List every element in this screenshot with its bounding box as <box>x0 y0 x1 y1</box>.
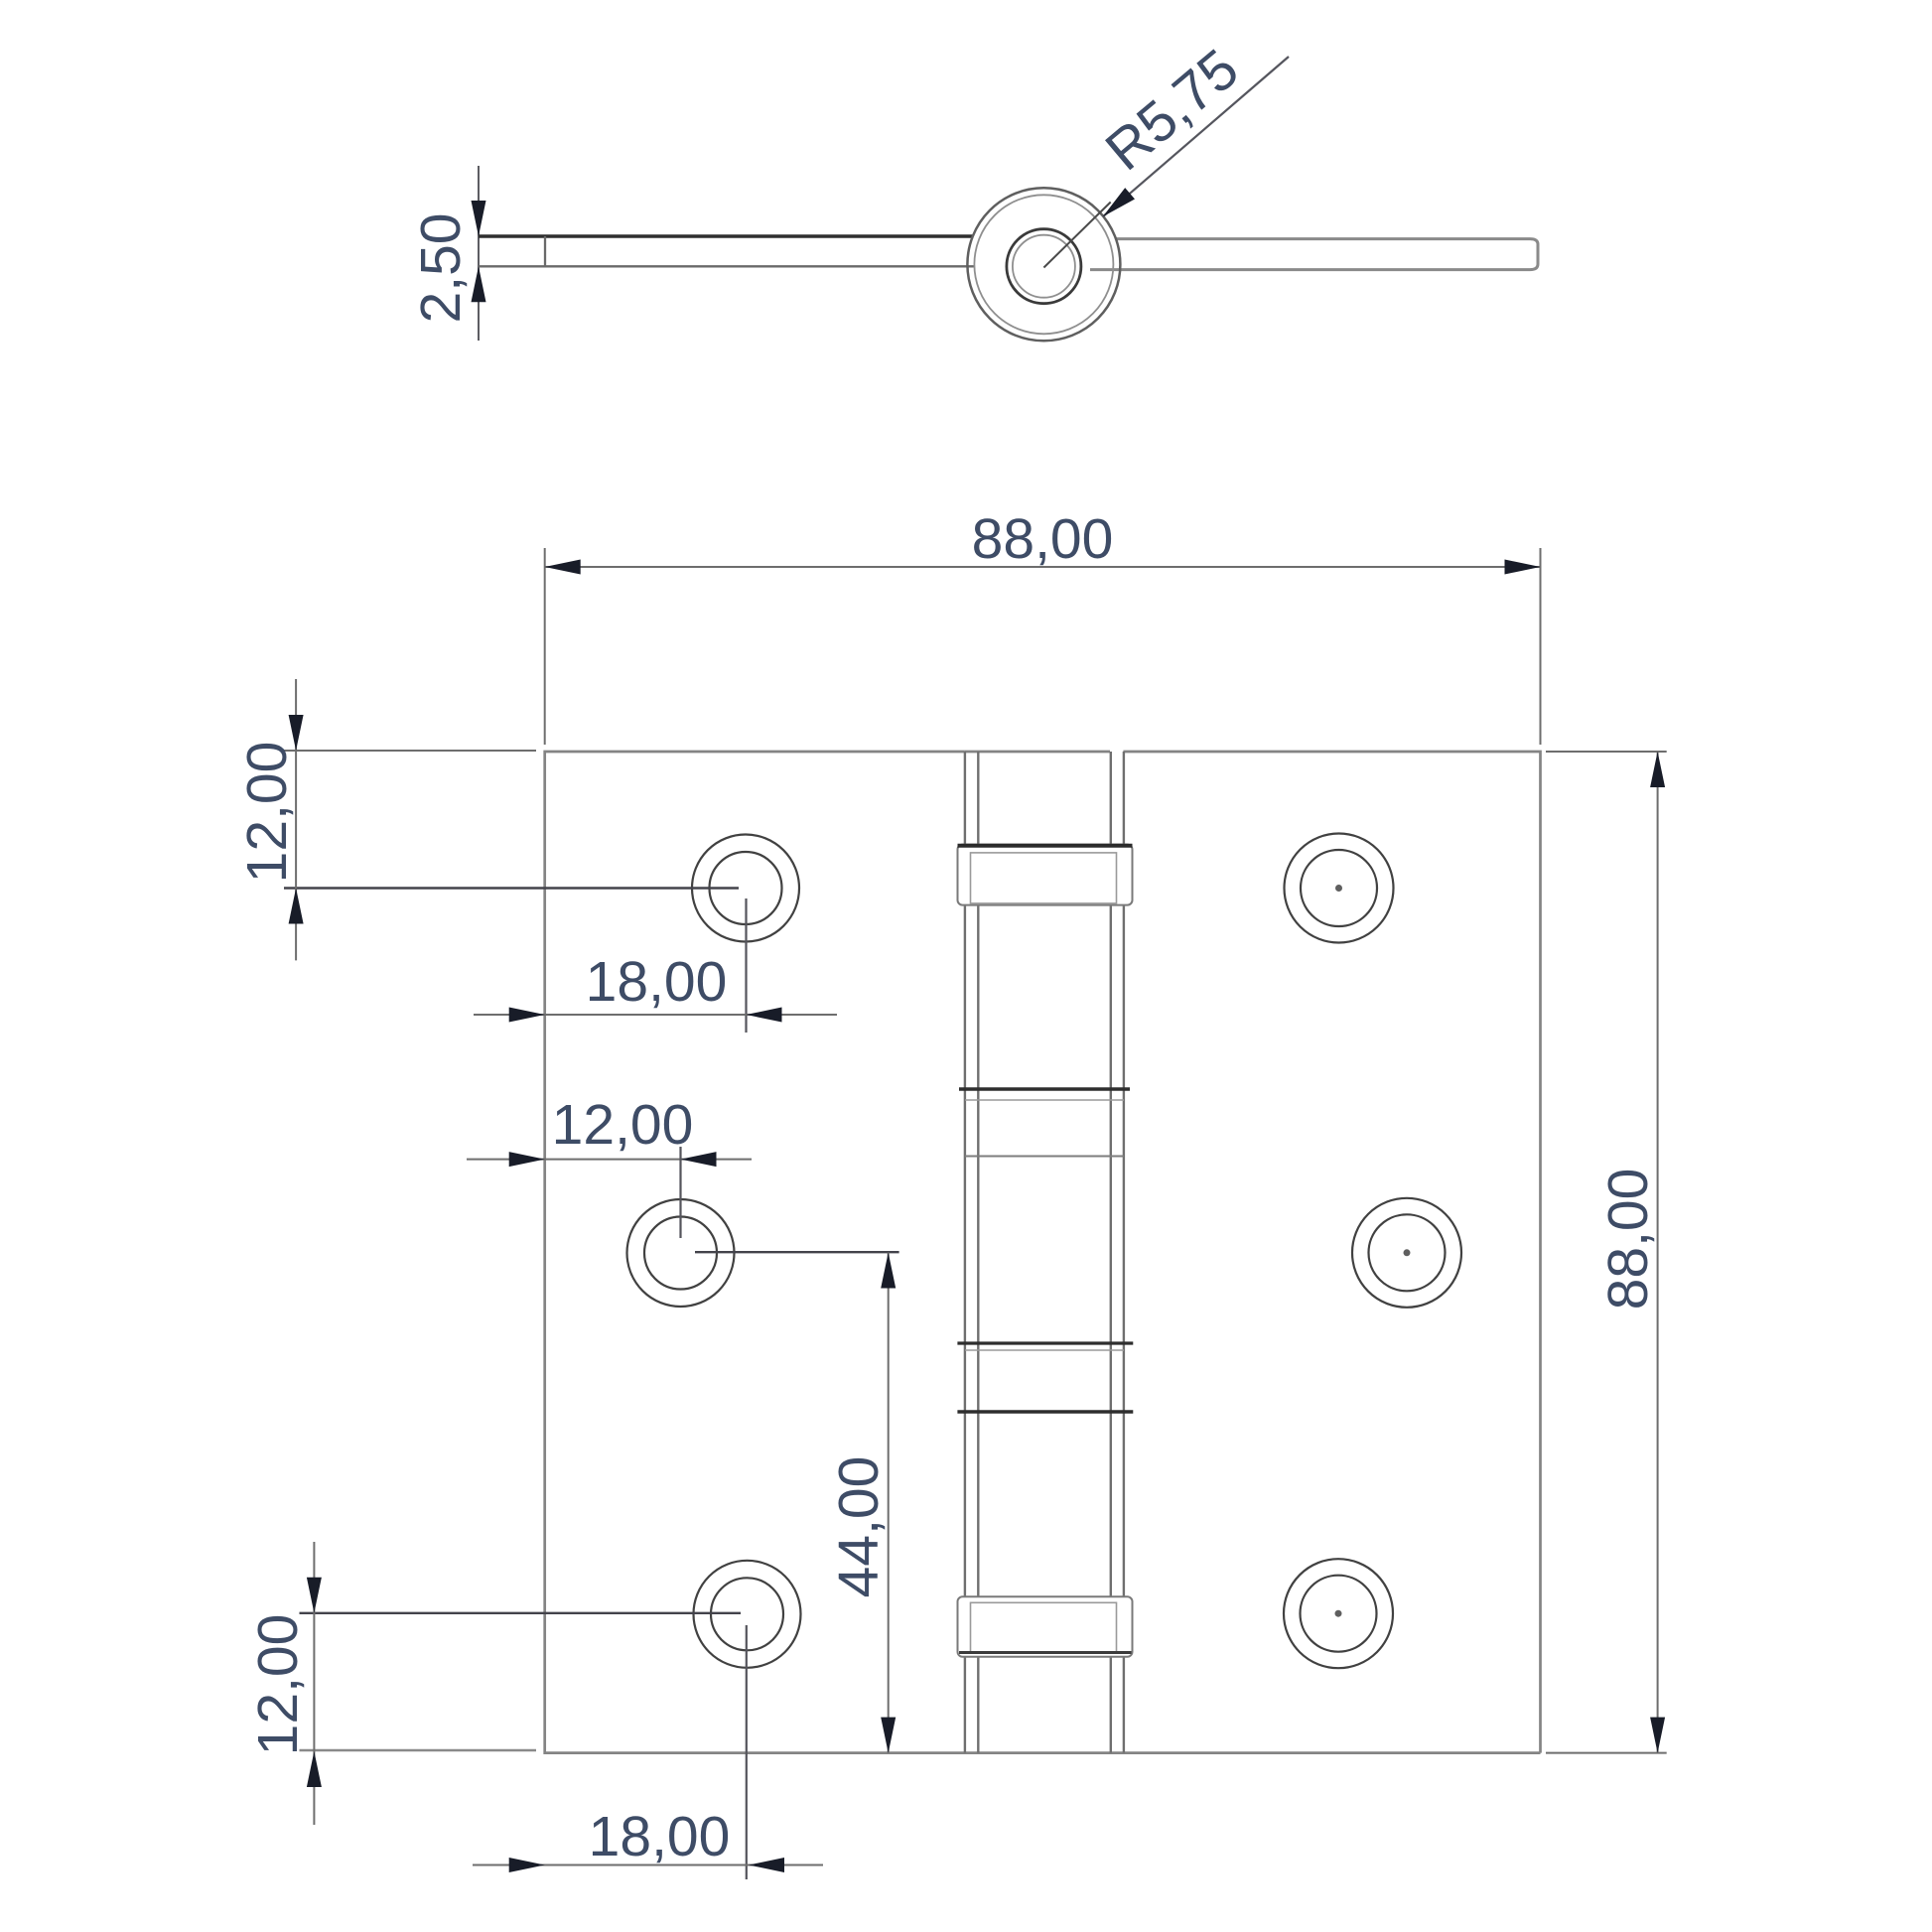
dimension 88,00 top: left arrow <box>545 560 581 575</box>
dimension 44,00: top arrow <box>881 1253 896 1289</box>
bearing collar top (white fill) <box>958 845 1133 905</box>
dimension 12,00 middle: dimension line <box>467 1159 752 1161</box>
dimension text 12,00 bottom-left <box>246 1614 310 1756</box>
dimension 18,00 bottom: right arrow <box>749 1858 784 1872</box>
left leaf top edge (side view) <box>479 234 973 237</box>
svg-text:18,00: 18,00 <box>586 950 728 1014</box>
dimension 88,00 top: extension lines <box>545 548 1541 745</box>
dimension 2,50 bottom arrow <box>472 266 486 302</box>
dimension 12,00 top-left: dimension line <box>295 679 297 960</box>
dimension text 18,00 top <box>586 950 728 1014</box>
left leaf bottom edge (side view) <box>479 265 975 267</box>
dimension text 12,00 top-left <box>235 742 299 884</box>
dimension 12,00 middle: right arrow <box>681 1152 717 1167</box>
dimension 88,00 right: top arrow <box>1650 752 1665 787</box>
barrel divider gray line <box>965 1156 1124 1158</box>
extension line down from hole top-left <box>745 898 747 1033</box>
dimension 18,00 top: dimension line <box>474 1014 837 1016</box>
hole top-right <box>1285 834 1394 943</box>
centerline from hole bottom-left <box>300 1612 742 1614</box>
hole top-left <box>692 835 799 942</box>
dimension text 44,00 <box>827 1456 891 1598</box>
extension line down from hole bottom-left <box>746 1625 748 1879</box>
pin hole inner ring <box>1013 235 1075 298</box>
dimension 12,00 middle: left arrow <box>509 1152 545 1167</box>
pin hole outer circle <box>1007 229 1081 304</box>
dimension 12,00 top-left: bottom arrow <box>289 889 304 924</box>
barrel vertical line far-left <box>964 752 966 1753</box>
dimension text 88,00 right <box>1596 1169 1660 1311</box>
svg-text:12,00: 12,00 <box>552 1093 694 1157</box>
svg-text:12,00: 12,00 <box>235 742 299 884</box>
dimension 18,00 bottom: dimension line <box>473 1864 823 1866</box>
barrel vertical line far-right <box>1123 752 1125 1753</box>
knuckle outer circle (side view) <box>967 188 1120 341</box>
bearing collar bottom (white fill) <box>958 1596 1133 1657</box>
right plate outline <box>1123 752 1540 1753</box>
dimension text R5,75 <box>1094 37 1251 183</box>
hole bottom-right <box>1284 1559 1393 1668</box>
dimension text 2,50 <box>409 213 473 324</box>
dimension 18,00 top: right arrow <box>747 1008 782 1023</box>
hole mid-right <box>1352 1198 1461 1308</box>
barrel divider dark line 2 <box>957 1343 1133 1350</box>
leader arrow R5,75 <box>1103 188 1135 216</box>
dimension 18,00 bottom: left arrow <box>509 1858 545 1872</box>
left leaf end cap (side view) <box>544 236 546 266</box>
hole bottom-left <box>694 1561 801 1668</box>
dimension 12,00 bottom-left: top arrow <box>307 1578 322 1613</box>
dimension 12,00 top-left: top arrow <box>289 715 304 751</box>
dimension 18,00 top: left arrow <box>509 1008 545 1023</box>
centerline right from hole mid-left <box>695 1251 899 1253</box>
extension line up from hole mid-left <box>679 1147 681 1238</box>
dimension 2,50 top arrow <box>472 201 486 236</box>
knuckle outer inner ring <box>974 195 1113 334</box>
bearing collar bottom dark edge <box>959 1651 1132 1654</box>
right leaf outline (side view) <box>1090 239 1538 270</box>
svg-text:12,00: 12,00 <box>246 1614 310 1756</box>
svg-text:88,00: 88,00 <box>972 507 1114 571</box>
dimension 12,00 bottom-left: extension line from plate bottom edge <box>300 1749 537 1751</box>
radius line inside knuckle <box>1043 203 1110 268</box>
barrel vertical line inner-right <box>1110 752 1112 1753</box>
dimension 12,00 bottom-left: bottom arrow <box>307 1751 322 1787</box>
dimension 88,00 right: bottom arrow <box>1650 1718 1665 1753</box>
dimension 2,50 line <box>478 166 480 341</box>
svg-text:2,50: 2,50 <box>409 213 473 324</box>
left plate outline <box>545 752 1541 1753</box>
dimension text 18,00 bottom <box>589 1805 731 1868</box>
knuckle top edge <box>965 751 1110 754</box>
dimension text 88,00 top <box>972 507 1114 571</box>
dimension 88,00 top: right arrow <box>1505 560 1541 575</box>
dimension 44,00: bottom arrow <box>881 1718 896 1753</box>
dimension 12,00 bottom-left: dimension line <box>313 1542 315 1825</box>
bearing collar top dark edge <box>958 844 1133 848</box>
barrel vertical line inner-left <box>977 752 979 1753</box>
svg-text:88,00: 88,00 <box>1596 1169 1660 1311</box>
hole mid-left <box>627 1199 735 1307</box>
dimension 88,00 right: extension lines <box>1546 752 1667 1753</box>
dimension 12,00 top-left: extension line from plate top edge <box>284 750 536 752</box>
svg-text:18,00: 18,00 <box>589 1805 731 1868</box>
leader line R5,75 <box>1103 57 1289 216</box>
barrel divider dark line 3 <box>957 1410 1133 1414</box>
dimension 88,00 right: dimension line <box>1657 752 1659 1753</box>
barrel divider dark line 1 <box>959 1089 1130 1100</box>
centerline from hole top-left <box>284 887 739 889</box>
svg-text:44,00: 44,00 <box>827 1456 891 1598</box>
dimension 88,00 top: dimension line <box>545 566 1541 568</box>
dimension 44,00: dimension line <box>888 1253 890 1753</box>
dimension text 12,00 middle <box>552 1093 694 1157</box>
